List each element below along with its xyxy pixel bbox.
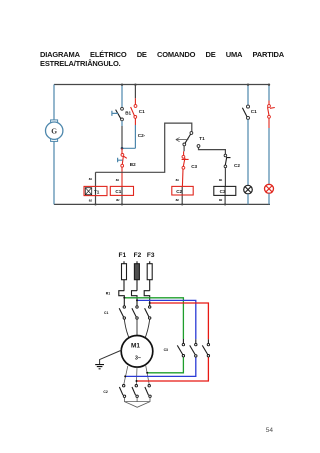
lamp H1 (black) [244, 185, 253, 194]
fuse F2 [134, 261, 139, 291]
svg-text:B2: B2 [130, 162, 136, 167]
svg-text:M1: M1 [131, 342, 140, 349]
wire drop to C2 NC contact (right) [268, 85, 270, 101]
contact C2 (NC interlock, black) [224, 154, 240, 168]
terminal labels a1/a2 [89, 177, 223, 202]
wire below B2 to junction row [121, 167, 123, 186]
contact C1 (seal-in) [131, 105, 146, 119]
phase wires to C1 contacts [124, 298, 149, 306]
svg-text:C1: C1 [139, 109, 145, 114]
contact C1 pole3 [145, 306, 151, 319]
ground [95, 350, 122, 369]
delta feed red (to V2) [137, 357, 209, 381]
generator G [46, 120, 63, 141]
contact C1 pole2 [132, 306, 138, 319]
left rail wire [53, 85, 55, 205]
svg-text:C1: C1 [104, 311, 108, 315]
svg-text:C1: C1 [251, 109, 257, 114]
lamp H2 (red) [265, 184, 274, 193]
wire to B2 [121, 148, 123, 153]
svg-text:T1: T1 [94, 189, 100, 194]
fuse F3 [147, 261, 152, 291]
wire C3 to coil C2 [181, 169, 184, 186]
red L3 [150, 303, 209, 339]
pushbutton B2 (NC) [118, 154, 137, 168]
svg-text:54: 54 [266, 427, 274, 434]
contact C2 pole2 [132, 385, 138, 398]
pushbutton B1 [112, 107, 132, 120]
svg-text:a1: a1 [89, 177, 93, 181]
svg-text:a1: a1 [219, 178, 223, 182]
switch R1 pole 1 [119, 291, 125, 298]
bottom rail L2 [54, 203, 270, 205]
title text [40, 50, 284, 69]
svg-text:a2: a2 [176, 198, 180, 202]
svg-text:C2: C2 [234, 163, 240, 168]
svg-text:a2: a2 [89, 199, 93, 203]
wire below B1 [121, 121, 123, 126]
contactor coil C3 [214, 186, 236, 204]
contact C2 pole3 [145, 385, 151, 398]
blue L2 [137, 300, 196, 339]
wire contact to lamp H1 [247, 119, 249, 185]
wire drop to B1 [121, 85, 123, 108]
svg-text:C3: C3 [191, 164, 197, 169]
svg-text:a1: a1 [116, 178, 120, 182]
svg-text:a2: a2 [219, 198, 223, 202]
seal contact C1 drop [134, 85, 136, 99]
contact C3 pole2 [190, 339, 197, 357]
svg-text:F2: F2 [134, 252, 142, 259]
wire below C1 to junction [134, 118, 136, 125]
svg-text:T1: T1 [199, 136, 205, 141]
svg-text:F3: F3 [147, 252, 155, 259]
star point [125, 398, 151, 408]
rail junction dots [94, 203, 96, 205]
svg-text:3~: 3~ [135, 355, 141, 361]
svg-text:G: G [51, 127, 57, 136]
timer contact T1 [176, 132, 205, 148]
junction row wire right to timer contact [122, 123, 192, 172]
motor bottom leads [124, 366, 149, 385]
contact C2 (NC, red, lamp branch) [268, 105, 275, 119]
wire drop to lamp branch contact C1 [247, 85, 249, 106]
top rail L1 [54, 84, 270, 86]
delta feed green (to W2) [147, 357, 183, 373]
junction row wire left to T1 coil [96, 172, 123, 186]
svg-text:B1: B1 [125, 111, 131, 116]
junction node [121, 147, 124, 150]
motor M1 [121, 336, 153, 368]
svg-text:R1: R1 [106, 292, 110, 296]
switch R1 pole 3 [144, 291, 150, 303]
svg-text:C3: C3 [220, 189, 226, 194]
svg-text:a1: a1 [176, 178, 180, 182]
svg-text:C2: C2 [103, 390, 107, 394]
contact C1 pole1 [119, 306, 125, 319]
svg-text:C1: C1 [115, 189, 121, 194]
contact C3 (NC interlock, red) [182, 155, 198, 169]
contactor coil C1 [110, 186, 133, 204]
contactor coil C2 [172, 186, 193, 204]
wire C2 contact to coil C3 [224, 168, 226, 187]
contact C3 pole3 [202, 339, 209, 357]
wire timer NO to C2 interlock [199, 147, 226, 154]
svg-text:F1: F1 [119, 252, 127, 259]
wire lamp H2 to rail [268, 193, 270, 204]
wire lamp H1 to rail [247, 194, 249, 205]
svg-text:C2: C2 [176, 189, 182, 194]
svg-text:a2: a2 [116, 198, 120, 202]
junction dot [121, 84, 123, 86]
wire timer to C3 interlock [183, 146, 185, 152]
timer coil T1 [84, 186, 107, 204]
leads C1 to motor [124, 319, 149, 340]
fuse F1 [122, 261, 127, 291]
svg-text:C2-: C2- [138, 133, 146, 138]
contact C1 (lamp branch) [242, 105, 257, 119]
contact C3 pole1 [177, 339, 184, 357]
switch R1 pole 2 [132, 291, 138, 301]
phase taps to delta contacts: green L1 [124, 298, 183, 339]
delta feed blue (to U2) [125, 357, 196, 376]
wire to lamp H2 [268, 118, 270, 128]
contact C2 pole1 [119, 385, 125, 398]
svg-text:C3: C3 [164, 348, 168, 352]
